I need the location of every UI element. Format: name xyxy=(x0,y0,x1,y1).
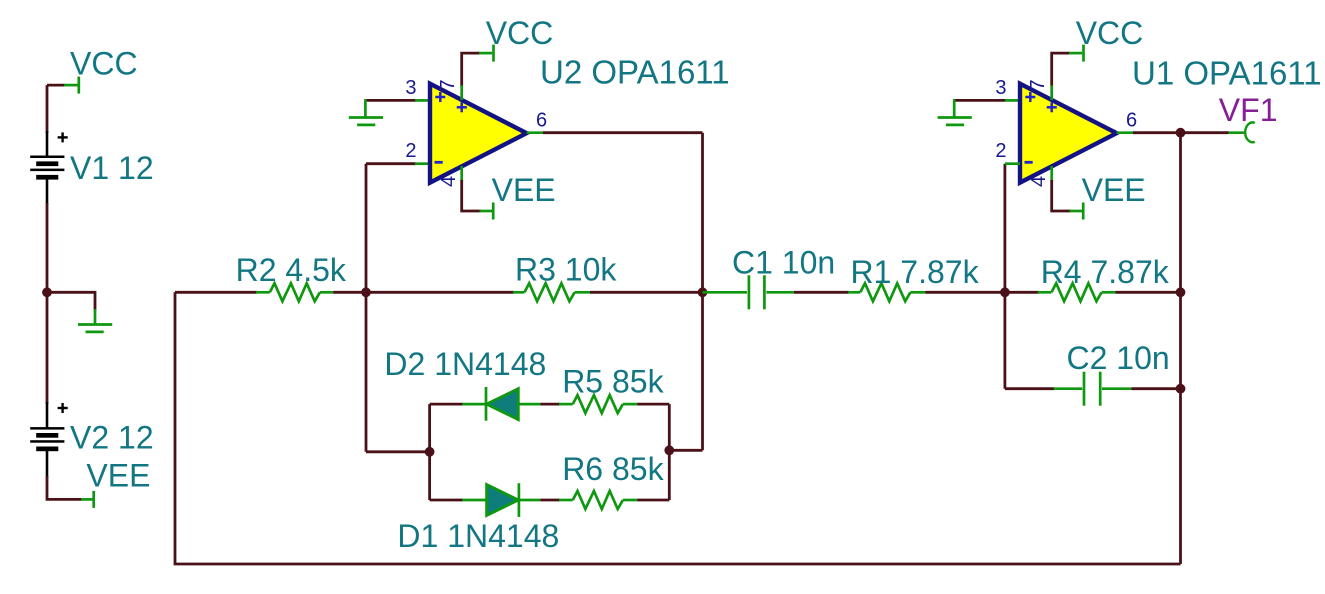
wire diode net left vertical xyxy=(428,404,431,500)
svg-text:D1 1N4148: D1 1N4148 xyxy=(397,518,559,554)
wire diode net right vertical xyxy=(668,404,671,500)
wire pin2 stub green U1 xyxy=(1005,162,1020,165)
wire C2 left green xyxy=(1054,387,1083,390)
plus mark U2 input xyxy=(435,92,445,102)
diode D1 1N4148 xyxy=(487,483,541,517)
ground symbol U1 xyxy=(938,99,972,125)
wire U2 pin3 horizontal xyxy=(365,99,416,102)
VEE port bar left xyxy=(92,491,95,508)
svg-text:VCC: VCC xyxy=(486,15,554,51)
wire pin2 vertical U1 xyxy=(1004,164,1007,389)
node dot C2 right xyxy=(1176,384,1186,394)
wire D2-R5 xyxy=(540,403,560,406)
wire U2 pin4 green xyxy=(460,166,463,182)
wire VEE pin green xyxy=(81,498,93,501)
svg-text:VCC: VCC xyxy=(1076,15,1144,51)
wire pin2 horizontal U2 xyxy=(366,162,416,165)
op-amp U1 triangle xyxy=(1020,84,1117,183)
wire U2 pin3 stub green xyxy=(415,99,430,102)
ground symbol mid-left xyxy=(78,309,112,332)
wire VCC stub horizontal xyxy=(47,84,65,87)
wire U1 VCC vertical xyxy=(1052,53,1070,86)
svg-text:V1 12: V1 12 xyxy=(70,150,154,186)
svg-text:7: 7 xyxy=(437,79,459,90)
svg-text:4: 4 xyxy=(1028,176,1050,187)
svg-text:4: 4 xyxy=(438,176,460,187)
wire D1 left lead xyxy=(430,499,463,502)
battery V2 plates xyxy=(30,427,64,451)
wire C2 left lead xyxy=(1005,387,1055,390)
battery V1 plates xyxy=(30,156,64,180)
wire U1 VEE green xyxy=(1070,210,1083,213)
wire ground tap horizontal xyxy=(47,292,95,310)
capacitor C2 10n xyxy=(1084,372,1100,406)
wire feedback to diode net xyxy=(366,450,430,453)
svg-text:VCC: VCC xyxy=(70,46,138,82)
battery V1 plus sign xyxy=(58,132,68,142)
wire C1 left green xyxy=(703,291,748,294)
svg-text:R2 4.5k: R2 4.5k xyxy=(236,252,347,288)
battery V2 lead top (black) xyxy=(46,402,49,428)
node dot R4 right xyxy=(1176,287,1186,297)
resistor R4 7.87k xyxy=(1038,283,1116,301)
wire C2 right green xyxy=(1102,387,1132,390)
probe VF1 xyxy=(1245,122,1255,142)
battery V1 lead top (black) xyxy=(46,131,49,156)
VCC port bar U2 xyxy=(492,45,495,62)
wire U1 output horizontal xyxy=(1133,131,1181,134)
resistor R2 4.5k xyxy=(256,283,333,301)
wire R4 right xyxy=(1116,291,1181,294)
wire U2 output vertical xyxy=(701,133,704,451)
svg-text:D2 1N4148: D2 1N4148 xyxy=(384,346,546,382)
wire D2 anode green xyxy=(462,403,486,406)
wire D2 left lead xyxy=(430,403,463,406)
plus mark U1 supply xyxy=(1047,102,1057,112)
wire D1-R6 xyxy=(540,499,560,502)
wire C2 right xyxy=(1132,387,1181,390)
svg-text:R4 7.87k: R4 7.87k xyxy=(1041,254,1170,290)
wire U1 VEE vertical xyxy=(1052,180,1071,211)
wire U1 output stub green xyxy=(1117,131,1133,134)
svg-text:6: 6 xyxy=(536,109,547,131)
svg-text:VEE: VEE xyxy=(1082,172,1146,208)
diode D2 1N4148 xyxy=(486,387,540,421)
wire C1 right green xyxy=(766,291,793,294)
svg-text:R6 85k: R6 85k xyxy=(562,451,664,487)
wire U2 VEE vertical xyxy=(462,180,481,211)
wire R3 right xyxy=(590,291,703,294)
wire diode net to output vertical xyxy=(669,449,702,452)
wire U2 output stub green xyxy=(527,131,543,134)
wire R3 left lead xyxy=(366,291,514,294)
battery V1 lead bottom (black) xyxy=(46,179,49,205)
wire VCC pin green xyxy=(64,84,78,87)
wire U1 pin3 stub green xyxy=(1005,99,1020,102)
svg-text:2: 2 xyxy=(995,140,1006,162)
wire R1 right xyxy=(926,291,1005,294)
resistor R6 85k xyxy=(559,491,637,509)
svg-text:3: 3 xyxy=(995,77,1006,99)
VCC port bar U1 xyxy=(1082,45,1085,62)
svg-text:3: 3 xyxy=(405,77,416,99)
wire pin2 stub green U2 xyxy=(415,162,430,165)
wire output to probe xyxy=(1181,131,1230,134)
svg-text:VF1: VF1 xyxy=(1219,92,1278,128)
resistor R3 10k xyxy=(513,283,590,301)
node dot R2/R3 xyxy=(361,287,371,297)
svg-text:V2 12: V2 12 xyxy=(70,420,154,456)
svg-text:C1 10n: C1 10n xyxy=(732,244,835,280)
wire U1 pin4 green xyxy=(1050,166,1053,182)
battery V2 plus sign xyxy=(58,403,68,413)
minus mark U2 input xyxy=(435,161,443,164)
ground symbol U2 xyxy=(349,99,383,125)
wire inverting input vertical U2 xyxy=(365,164,368,452)
svg-text:U2 OPA1611: U2 OPA1611 xyxy=(540,54,730,91)
resistor R1 7.87k xyxy=(848,283,925,301)
wire U1 VCC green xyxy=(1069,52,1082,55)
wire R2 right xyxy=(333,291,366,294)
resistor R5 85k xyxy=(559,395,637,413)
svg-text:2: 2 xyxy=(405,140,416,162)
svg-text:C2 10n: C2 10n xyxy=(1067,340,1170,376)
wire left vertical V1 top xyxy=(46,85,49,133)
plus mark U1 input xyxy=(1025,92,1035,102)
node dot R3/C1 xyxy=(698,287,708,297)
wire R4 left lead xyxy=(1005,291,1039,294)
VEE port bar U2 xyxy=(492,203,495,220)
wire R2 left lead xyxy=(175,291,257,294)
svg-text:VEE: VEE xyxy=(86,458,150,494)
node dot diode right xyxy=(664,445,674,455)
wire left vertical mid xyxy=(46,203,49,404)
plus mark U2 supply xyxy=(457,102,467,112)
VCC port bar left xyxy=(77,77,80,94)
VEE port bar U1 xyxy=(1082,203,1085,220)
wire right frame vertical xyxy=(1179,133,1182,564)
wire left frame vertical xyxy=(175,292,1181,564)
battery V2 lead bottom (black) xyxy=(46,450,49,478)
node dot R1/R4 xyxy=(1000,287,1010,297)
wire R5 right xyxy=(637,403,669,406)
node dot U1 output xyxy=(1176,128,1186,138)
wire probe green xyxy=(1228,131,1245,134)
capacitor C1 10n xyxy=(749,275,765,309)
wire D1 anode green xyxy=(462,499,486,502)
svg-text:7: 7 xyxy=(1027,79,1049,90)
wire U2 pin7 green xyxy=(460,85,463,100)
node junction dot left xyxy=(42,287,52,297)
wire U2 output horizontal xyxy=(543,131,703,134)
svg-text:VEE: VEE xyxy=(492,172,556,208)
svg-text:R1 7.87k: R1 7.87k xyxy=(851,254,980,290)
wire U1 pin3 horizontal xyxy=(954,99,1006,102)
wire C1-R1 xyxy=(794,291,849,294)
svg-text:R5 85k: R5 85k xyxy=(562,364,664,400)
wire left vertical to VEE xyxy=(47,476,82,499)
svg-text:R3 10k: R3 10k xyxy=(515,251,617,287)
svg-text:U1 OPA1611: U1 OPA1611 xyxy=(1132,55,1322,92)
minus mark U1 input xyxy=(1025,161,1033,164)
wire R6 right xyxy=(637,499,669,502)
wire U2 VCC green xyxy=(479,52,492,55)
wire U1 pin7 green xyxy=(1050,85,1053,100)
op-amp U2 triangle xyxy=(430,84,527,183)
wire U2 VCC vertical xyxy=(462,53,480,86)
svg-text:6: 6 xyxy=(1126,109,1137,131)
node dot diode left xyxy=(425,447,435,457)
wire U2 VEE green xyxy=(480,210,493,213)
